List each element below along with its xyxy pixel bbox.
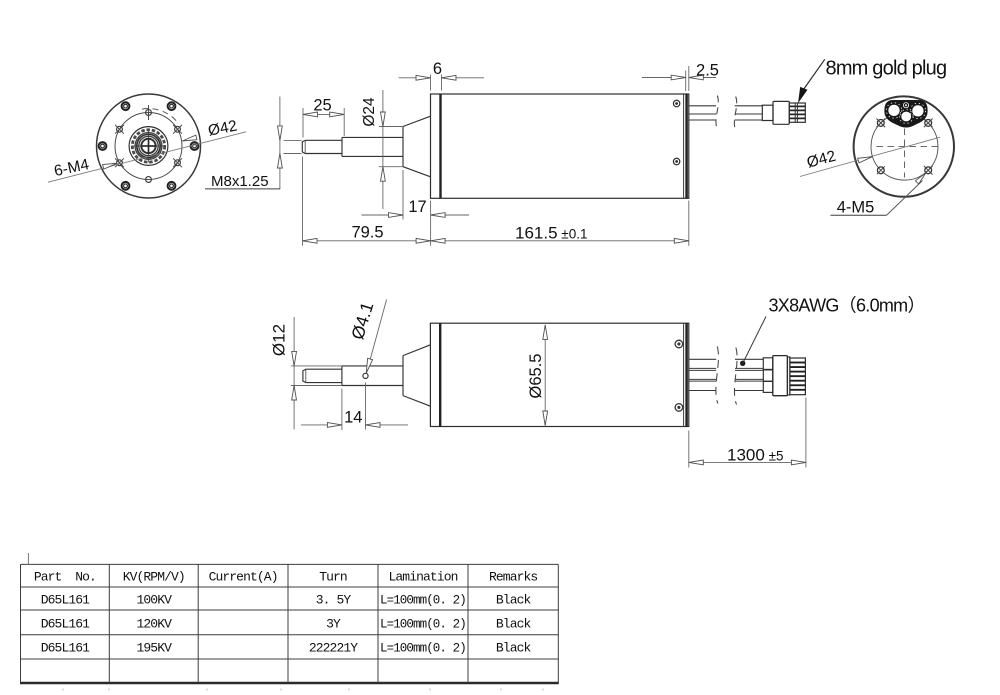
svg-text:Ø12: Ø12 (270, 324, 289, 356)
svg-text:4-M5: 4-M5 (837, 199, 875, 217)
svg-text:17: 17 (408, 198, 426, 216)
svg-text:120KV: 120KV (136, 616, 172, 631)
svg-text:2.5: 2.5 (696, 62, 719, 80)
svg-text:1300 ±5: 1300 ±5 (727, 446, 784, 465)
svg-text:Turn: Turn (319, 569, 347, 584)
svg-text:Ø24: Ø24 (361, 97, 378, 127)
svg-text:L=100mm(0. 2): L=100mm(0. 2) (380, 617, 466, 631)
svg-text:L=100mm(0. 2): L=100mm(0. 2) (380, 641, 466, 655)
svg-text:Part No.: Part No. (34, 569, 96, 584)
svg-text:8mm gold plug: 8mm gold plug (826, 58, 947, 80)
svg-text:D65L161: D65L161 (41, 640, 90, 655)
svg-text:Black: Black (496, 592, 532, 607)
svg-text:D65L161: D65L161 (41, 616, 90, 631)
svg-text:3X8AWG（6.0mm）: 3X8AWG（6.0mm） (769, 296, 925, 316)
svg-text:79.5: 79.5 (351, 223, 383, 241)
svg-text:KV(RPM/V): KV(RPM/V) (123, 569, 185, 584)
svg-text:L=100mm(0. 2): L=100mm(0. 2) (380, 593, 466, 607)
svg-text:Ø65.5: Ø65.5 (527, 354, 545, 399)
svg-text:25: 25 (313, 97, 331, 115)
svg-text:14: 14 (344, 409, 362, 427)
svg-text:M8x1.25: M8x1.25 (211, 173, 269, 190)
svg-text:3. 5Y: 3. 5Y (316, 592, 352, 607)
svg-text:Remarks: Remarks (489, 569, 537, 584)
svg-text:Black: Black (496, 616, 532, 631)
svg-text:161.5 ±0.1: 161.5 ±0.1 (515, 224, 587, 243)
svg-text:3Y: 3Y (326, 616, 341, 631)
svg-text:Lamination: Lamination (388, 569, 457, 584)
svg-text:Black: Black (496, 640, 532, 655)
svg-text:D65L161: D65L161 (41, 592, 90, 607)
svg-text:100KV: 100KV (136, 592, 172, 607)
svg-text:195KV: 195KV (136, 640, 172, 655)
svg-text:6: 6 (433, 60, 442, 78)
svg-text:Current(A): Current(A) (209, 569, 278, 584)
svg-text:222221Y: 222221Y (309, 640, 358, 655)
